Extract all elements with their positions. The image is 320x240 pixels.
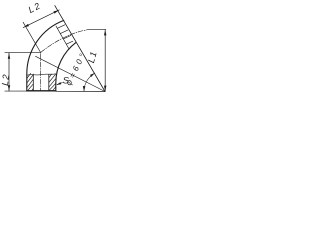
svg-text:L1: L1 <box>86 49 99 64</box>
svg-text:L2: L2 <box>0 73 11 86</box>
svg-text:L2: L2 <box>27 0 43 15</box>
